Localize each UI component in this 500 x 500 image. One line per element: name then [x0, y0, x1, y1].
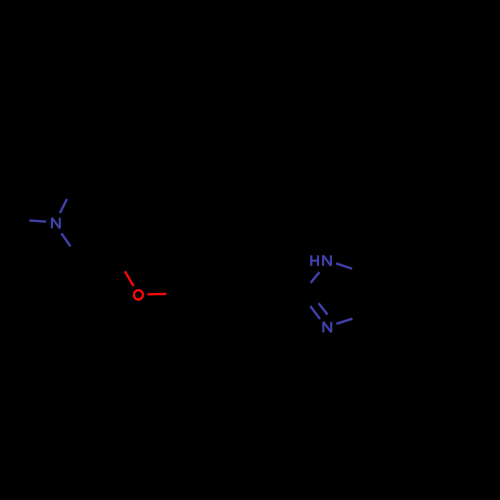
atom N3 (imidazole =N- nitrogen): [323, 322, 331, 333]
bond N3-C3a (blue half): [336, 319, 352, 324]
bond O-CH2 (red half): [125, 271, 134, 286]
bond O-phenyl (red half): [148, 293, 167, 296]
bond N-CH3 (left methyl, blue half): [29, 220, 46, 221]
bond N-CH3 (upper methyl, blue half): [60, 199, 67, 213]
atom N1 (imidazole NH nitrogen): [323, 255, 331, 266]
atom N (dimethylamino nitrogen): [52, 218, 60, 229]
bond N-CH2 (blue half): [61, 233, 70, 246]
bond N1-C7a (blue half): [336, 263, 352, 268]
atom O (ether oxygen): [134, 290, 143, 299]
bond C2=N3 main line (blue half): [310, 306, 320, 319]
bond C2=N3 inner line (blue half): [319, 303, 328, 314]
bond N1-C2 (blue half): [311, 272, 320, 283]
atom H (imidazole N1 hydrogen): [310, 255, 319, 266]
